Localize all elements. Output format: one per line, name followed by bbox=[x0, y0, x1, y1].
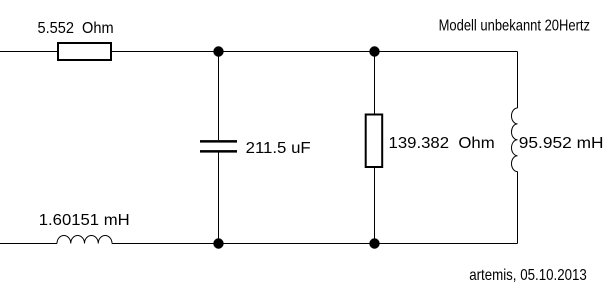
svg-text:139.382 Ohm: 139.382 Ohm bbox=[389, 135, 495, 152]
capacitor C1 bottom plate bbox=[200, 150, 237, 153]
capacitor C1 top plate bbox=[200, 140, 237, 143]
wire capacitor lower lead bbox=[218, 153, 220, 244]
svg-text:Modell unbekannt 20Hertz: Modell unbekannt 20Hertz bbox=[439, 17, 590, 34]
wire right vertical lower bbox=[517, 172, 519, 244]
svg-text:211.5 uF: 211.5 uF bbox=[246, 140, 311, 157]
svg-text:5.552 Ohm: 5.552 Ohm bbox=[38, 20, 114, 37]
wire bottom main segment bbox=[112, 243, 518, 245]
wire capacitor upper lead bbox=[218, 52, 220, 141]
node junction bottom-capacitor bbox=[213, 238, 223, 248]
inductor L2 95.952 mH bbox=[512, 108, 518, 172]
svg-text:1.60151 mH: 1.60151 mH bbox=[39, 212, 130, 229]
wire top-left segment bbox=[0, 51, 57, 53]
node junction top-capacitor bbox=[213, 46, 223, 56]
inductor L1 1.60151 mH bbox=[57, 235, 112, 243]
node junction top-resistor2 bbox=[369, 46, 379, 56]
svg-text:95.952 mH: 95.952 mH bbox=[519, 135, 604, 152]
resistor R2 139.382 Ohm bbox=[366, 115, 383, 168]
wire right vertical upper bbox=[517, 52, 519, 109]
wire bottom-left segment bbox=[0, 243, 57, 245]
resistor R1 5.552 Ohm bbox=[58, 43, 111, 60]
wire resistor2 lower lead bbox=[374, 168, 376, 244]
wire resistor2 upper lead bbox=[374, 52, 376, 114]
node junction bottom-resistor2 bbox=[369, 238, 379, 248]
svg-text:artemis, 05.10.2013: artemis, 05.10.2013 bbox=[469, 267, 587, 284]
wire top main segment bbox=[112, 51, 518, 53]
